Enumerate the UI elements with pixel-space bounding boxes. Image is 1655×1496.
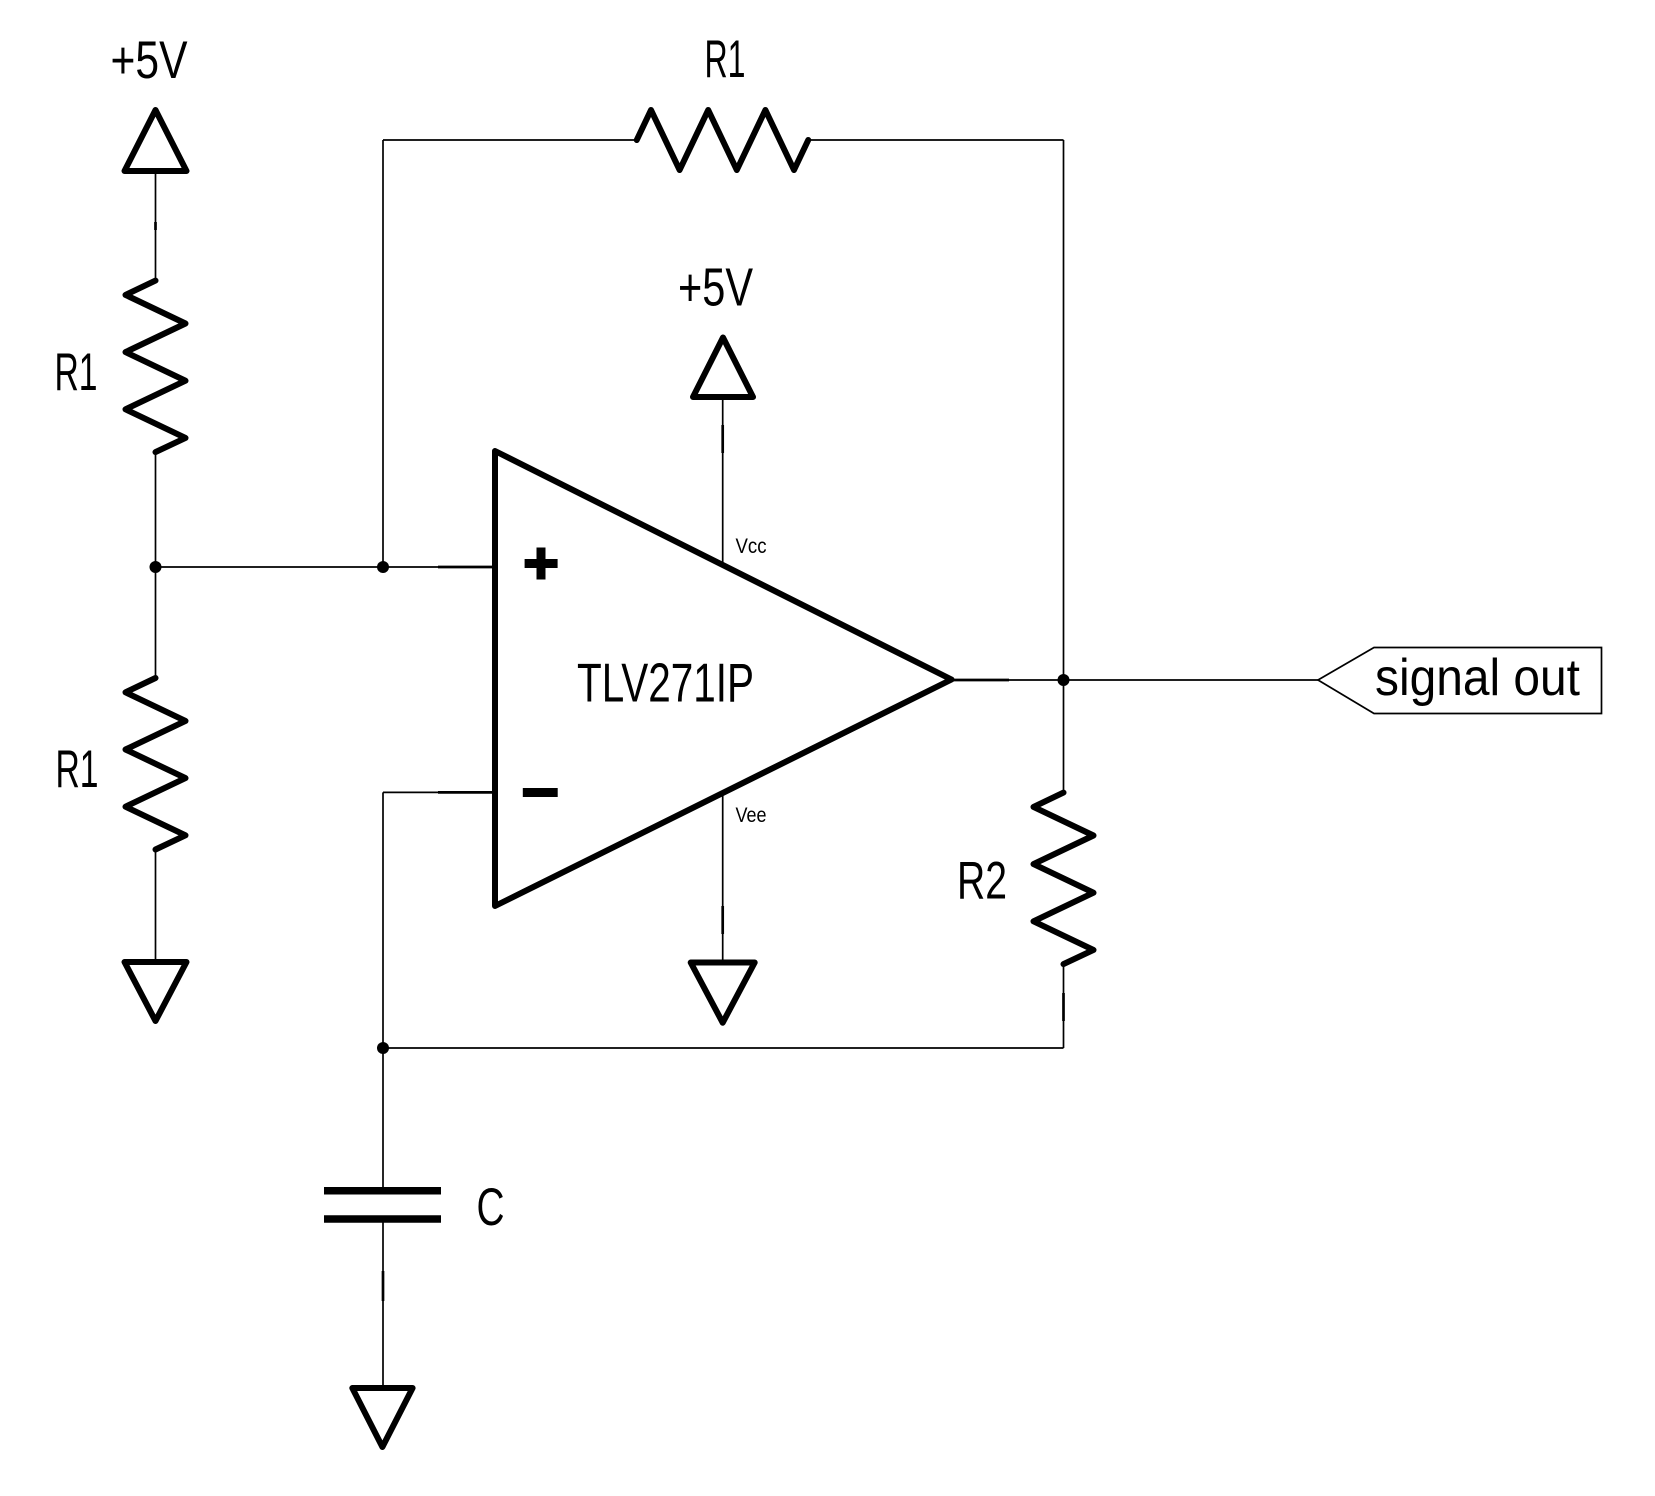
svg-text:+5V: +5V xyxy=(111,31,189,90)
svg-text:TLV271IP: TLV271IP xyxy=(577,652,754,714)
svg-text:C: C xyxy=(477,1178,505,1237)
svg-text:R2: R2 xyxy=(957,852,1007,911)
svg-text:R1: R1 xyxy=(705,30,746,89)
svg-text:R1: R1 xyxy=(56,740,99,799)
svg-text:R1: R1 xyxy=(55,343,98,402)
svg-text:+5V: +5V xyxy=(678,258,753,318)
svg-text:Vee: Vee xyxy=(736,803,767,827)
svg-text:Vcc: Vcc xyxy=(736,534,767,558)
svg-text:signal out: signal out xyxy=(1375,649,1581,707)
